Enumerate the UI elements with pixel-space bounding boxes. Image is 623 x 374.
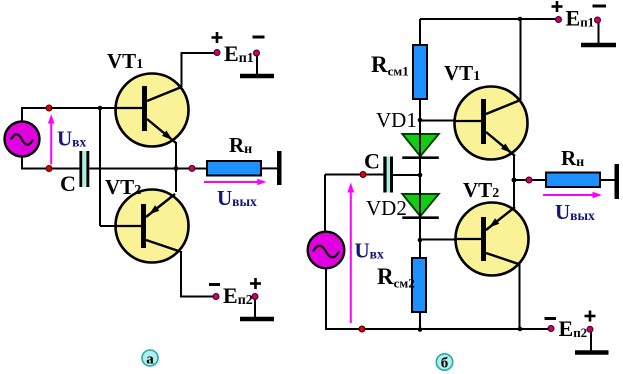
svg-text:Eп1: Eп1 xyxy=(224,41,254,66)
svg-text:Eп1: Eп1 xyxy=(566,6,595,31)
svg-text:Uвых: Uвых xyxy=(555,200,595,224)
svg-text:C: C xyxy=(364,148,380,173)
svg-text:Eп2: Eп2 xyxy=(223,283,253,308)
svg-text:Rсм2: Rсм2 xyxy=(377,264,415,291)
svg-text:VT1: VT1 xyxy=(444,61,480,85)
svg-text:VT2: VT2 xyxy=(463,178,499,202)
svg-text:C: C xyxy=(60,171,76,196)
svg-text:VT2: VT2 xyxy=(105,175,141,199)
svg-text:Rн: Rн xyxy=(229,133,252,157)
svg-text:б: б xyxy=(441,356,449,372)
svg-text:Rн: Rн xyxy=(561,146,584,170)
svg-text:Uвых: Uвых xyxy=(217,186,257,210)
svg-text:VD2: VD2 xyxy=(366,196,407,220)
svg-text:Uвх: Uвх xyxy=(355,239,384,263)
svg-text:а: а xyxy=(146,352,154,368)
svg-text:Uвх: Uвх xyxy=(57,127,86,151)
svg-text:Rсм1: Rсм1 xyxy=(371,52,409,79)
svg-text:VT1: VT1 xyxy=(107,49,143,73)
svg-text:Eп2: Eп2 xyxy=(559,316,588,341)
svg-text:VD1: VD1 xyxy=(376,108,417,132)
